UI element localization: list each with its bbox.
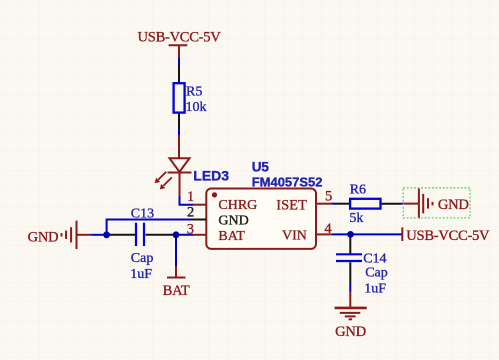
- svg-text:LED3: LED3: [193, 168, 229, 184]
- power port USB-VCC-5V (top): [138, 30, 222, 58]
- pin 1 CHRG: [187, 189, 257, 213]
- wire: [178, 129, 180, 135]
- wire (pin5 to R6): [337, 203, 351, 205]
- svg-text:C14: C14: [363, 252, 386, 267]
- wire: [92, 234, 107, 236]
- svg-text:USB-VCC-5V: USB-VCC-5V: [138, 30, 222, 46]
- svg-text:R5: R5: [186, 85, 202, 100]
- svg-text:1uF: 1uF: [130, 267, 152, 282]
- capacitor C13: [107, 223, 176, 246]
- power port USB-VCC-5V (right): [402, 227, 490, 244]
- IC U5 FM4057S52 body: [206, 189, 316, 249]
- svg-text:GND: GND: [28, 230, 59, 246]
- svg-text:FM4057S52: FM4057S52: [252, 175, 323, 190]
- wire: [178, 58, 180, 66]
- svg-text:CHRG: CHRG: [218, 198, 257, 213]
- svg-text:5: 5: [325, 188, 332, 204]
- svg-text:Cap: Cap: [365, 266, 388, 281]
- wire (pin4 VIN net): [331, 233, 402, 235]
- svg-text:GND: GND: [438, 197, 469, 213]
- pin 4 VIN: [282, 221, 332, 243]
- svg-text:5k: 5k: [349, 211, 363, 226]
- U5 pin-1 marker dot: [212, 192, 217, 197]
- svg-text:R6: R6: [350, 183, 366, 198]
- svg-text:BAT: BAT: [163, 283, 190, 299]
- svg-text:GND: GND: [335, 324, 366, 340]
- wire: [176, 234, 193, 236]
- svg-text:1uF: 1uF: [364, 281, 386, 296]
- junction: [173, 231, 180, 238]
- svg-text:VIN: VIN: [282, 229, 307, 244]
- svg-text:C13: C13: [131, 206, 154, 221]
- selection box around GND power port: [403, 188, 470, 218]
- LED LED3: [155, 135, 192, 197]
- svg-text:1: 1: [187, 189, 194, 205]
- resistor R6: [350, 199, 399, 209]
- power port GND (left): [28, 221, 92, 249]
- power port GND (bottom): [335, 292, 367, 341]
- svg-text:4: 4: [324, 221, 332, 237]
- wire (pin 2 net to C13): [107, 220, 192, 235]
- capacitor C14: [336, 234, 362, 283]
- resistor R5: [174, 66, 185, 129]
- svg-text:U5: U5: [252, 160, 270, 175]
- svg-text:2: 2: [187, 204, 194, 220]
- pin 3 BAT: [187, 221, 246, 243]
- wire: [180, 197, 194, 205]
- svg-text:USB-VCC-5V: USB-VCC-5V: [406, 228, 490, 244]
- svg-text:Cap: Cap: [131, 251, 154, 266]
- pin 2 GND: [187, 204, 249, 228]
- junction: [347, 231, 354, 238]
- svg-text:GND: GND: [218, 214, 248, 229]
- power port GND (right): [400, 189, 469, 219]
- svg-text:10k: 10k: [186, 100, 207, 115]
- wire (BAT net down): [175, 235, 177, 266]
- wire: [349, 283, 351, 292]
- power port BAT: [163, 266, 190, 299]
- pin 5 ISET: [276, 188, 336, 213]
- svg-text:BAT: BAT: [218, 229, 245, 244]
- svg-text:ISET: ISET: [276, 197, 307, 213]
- junction: [103, 231, 110, 238]
